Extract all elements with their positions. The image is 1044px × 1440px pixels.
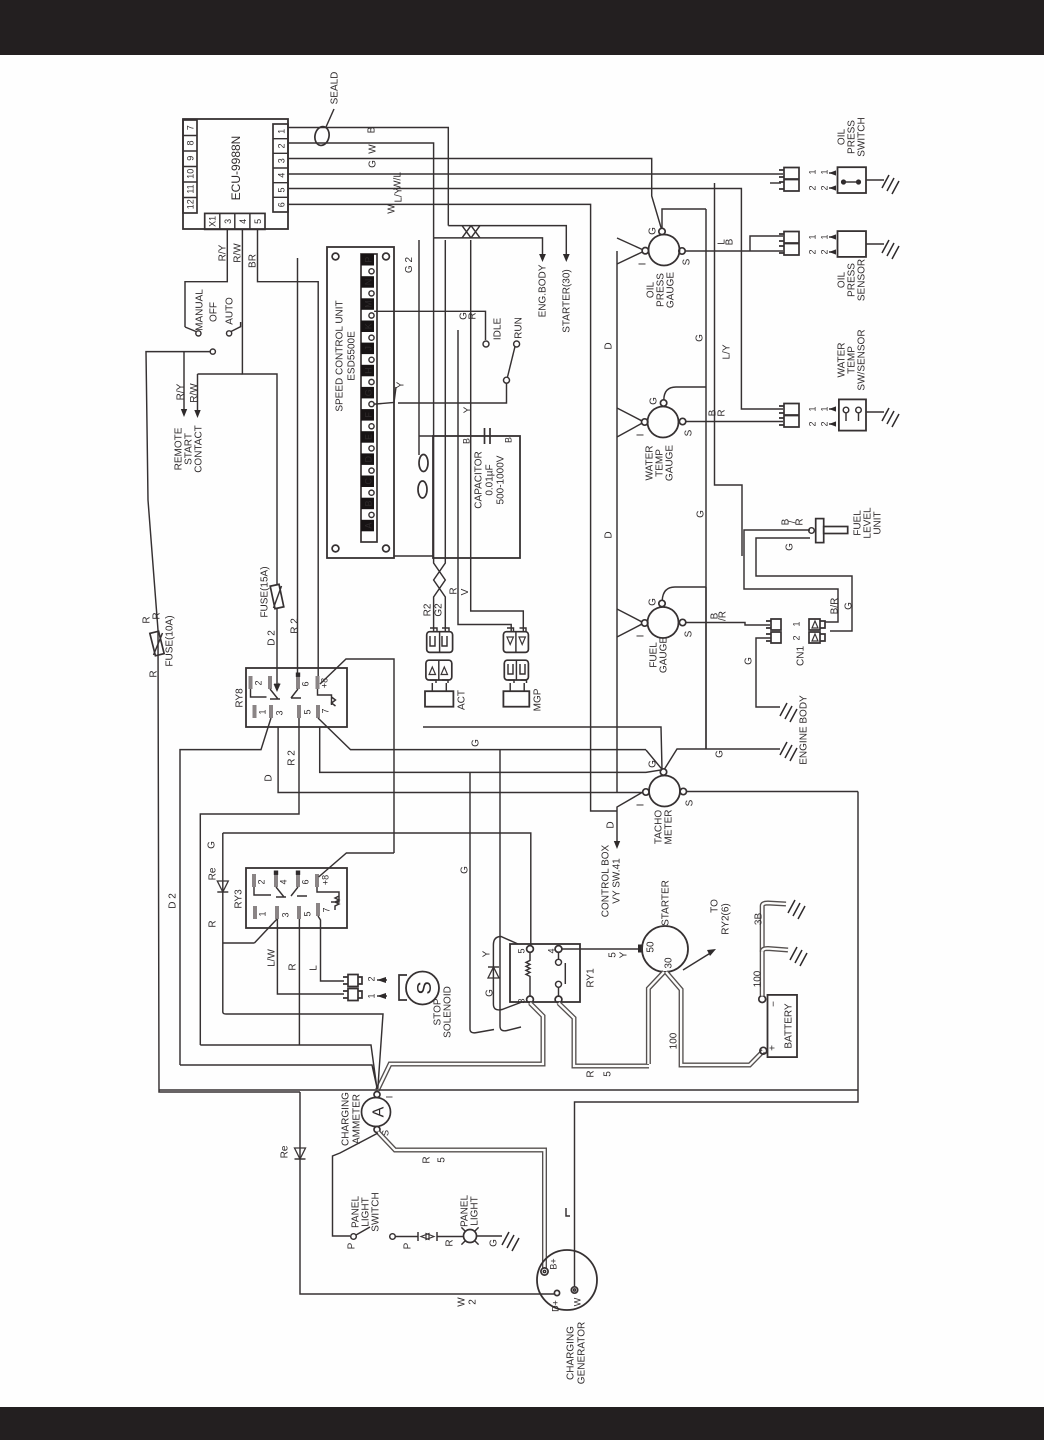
wire from cable to panel switch: [333, 1133, 379, 1236]
svg-text:CHARGING: CHARGING: [341, 1092, 352, 1146]
selector switch OFF contact: [210, 349, 215, 354]
wire RY3 +8 diagonal feed: [319, 853, 394, 877]
wire fuel I fan: [617, 609, 642, 637]
ground engine body lower: [780, 742, 797, 761]
D+ terminal: [554, 1290, 559, 1295]
wire W pin2: [288, 143, 434, 238]
svg-text:3: 3: [275, 710, 285, 715]
ground: [788, 900, 805, 919]
wire fan into ammeter: [180, 1014, 383, 1089]
ECU right connector strip pins 1-6: [273, 124, 288, 212]
svg-text:1: 1: [808, 169, 818, 174]
svg-text:D 2: D 2: [267, 630, 278, 646]
svg-text:G: G: [460, 866, 471, 874]
svg-text:G: G: [648, 598, 659, 606]
ammeter M5 circle: [362, 1098, 391, 1127]
svg-text:STARTER: STARTER: [661, 880, 672, 926]
svg-text:L/Y: L/Y: [394, 187, 405, 202]
svg-text:N: N: [364, 279, 374, 286]
wire WT G loop: [664, 387, 706, 400]
diode Re: [295, 1148, 306, 1159]
svg-text:ESD5500E: ESD5500E: [347, 331, 358, 381]
svg-text:100: 100: [753, 970, 764, 987]
wire from OFF to left bus: [146, 352, 300, 1092]
svg-text:G: G: [648, 227, 659, 235]
svg-text:I: I: [636, 635, 647, 638]
wire tacho S to right border: [687, 791, 859, 793]
svg-text:SW/SENSOR: SW/SENSOR: [857, 329, 868, 390]
svg-text:G: G: [715, 750, 726, 758]
svg-text:5: 5: [303, 709, 313, 714]
svg-text:Y: Y: [396, 381, 407, 388]
wire connector to lamp: [437, 1236, 463, 1238]
svg-text:2: 2: [468, 1299, 479, 1305]
svg-text:4: 4: [279, 879, 289, 884]
ECU left connector strip pins 7-12: [183, 120, 197, 213]
wire fuel S to CN1: [686, 623, 770, 626]
top black bar: [0, 0, 1044, 55]
svg-text:W: W: [457, 1297, 468, 1307]
svg-text:I: I: [638, 263, 649, 266]
svg-text:B: B: [725, 238, 736, 245]
svg-text:GAUGE: GAUGE: [665, 445, 676, 481]
svg-text:1: 1: [277, 129, 287, 134]
remote start wire R/Y arrow: [183, 352, 185, 412]
svg-text:2: 2: [820, 185, 830, 190]
W terminal: [571, 1287, 577, 1293]
svg-text:7: 7: [186, 125, 196, 130]
svg-text:R 2: R 2: [287, 750, 298, 766]
wire RY3 top to RY1: [223, 833, 531, 945]
ACT lower connector: [426, 660, 452, 680]
svg-text:Y: Y: [619, 951, 630, 958]
selector switch AUTO contact: [227, 331, 232, 336]
wire to ground: [866, 411, 884, 413]
svg-text:5: 5: [253, 219, 263, 224]
svg-text:D: D: [604, 342, 615, 349]
svg-text:R2: R2: [423, 603, 434, 616]
water temp connector: [779, 404, 799, 428]
svg-text:100: 100: [669, 1032, 680, 1049]
oil press sensor R1 box: [838, 231, 867, 257]
svg-text:S: S: [682, 258, 693, 265]
panel light switch SW2: [351, 1234, 357, 1240]
water temp gauge M2: [648, 407, 679, 438]
svg-text:5: 5: [303, 911, 313, 916]
RY1 coil: [526, 952, 530, 996]
svg-text:R: R: [149, 670, 160, 677]
svg-text:G: G: [744, 657, 755, 665]
svg-text:B/R: B/R: [830, 598, 841, 615]
svg-text:RUN: RUN: [514, 317, 525, 339]
svg-text:SEALD: SEALD: [330, 72, 341, 105]
B+ terminal: [541, 1268, 548, 1275]
svg-text:AUTO: AUTO: [225, 297, 236, 325]
wire G pin3: [288, 159, 661, 229]
wire L from RY3 pin7: [318, 916, 344, 981]
RY1 pin circles: [527, 946, 534, 953]
arrows: [829, 173, 835, 188]
panel light LP1: [464, 1230, 477, 1243]
svg-text:−: −: [769, 1001, 780, 1007]
wire RY3 pin3 from bottom rail: [254, 919, 277, 943]
arrow to RY2: [683, 952, 712, 970]
ground: [882, 175, 899, 194]
svg-text:CHARGING: CHARGING: [566, 1326, 577, 1380]
wire to ground: [866, 243, 884, 245]
svg-text:0.01µF: 0.01µF: [485, 464, 496, 495]
mounting hole: [383, 253, 390, 260]
svg-text:M: M: [364, 300, 374, 308]
svg-text:I: I: [636, 804, 647, 807]
svg-text:5: 5: [608, 952, 619, 958]
water temp sw/sensor box: [839, 399, 866, 430]
svg-text:S: S: [685, 799, 696, 806]
svg-text:1: 1: [820, 234, 830, 239]
svg-text:SPEED CONTROL UNIT: SPEED CONTROL UNIT: [335, 300, 346, 411]
svg-text:7: 7: [321, 708, 331, 713]
svg-text:GAUGE: GAUGE: [659, 637, 670, 673]
svg-text:1: 1: [367, 993, 377, 998]
svg-text:X1: X1: [208, 216, 218, 227]
charging generator G1 circle: [537, 1250, 597, 1310]
svg-text:S: S: [684, 429, 695, 436]
svg-text:RY2(6): RY2(6): [721, 903, 732, 935]
switch IDLE contact: [483, 341, 489, 347]
svg-text:4: 4: [547, 948, 557, 953]
svg-text:GAUGE: GAUGE: [666, 272, 677, 308]
cable RY1 pin3 to ammeter: [378, 1003, 544, 1090]
svg-text:1: 1: [258, 709, 268, 714]
svg-text:A: A: [371, 1106, 388, 1117]
svg-text:METER: METER: [664, 810, 675, 845]
battery minus cable to grounds: [762, 903, 786, 996]
svg-text:Re: Re: [208, 867, 219, 880]
wire oil I fan: [617, 238, 642, 264]
oil press switch S1 box: [838, 167, 867, 193]
MGP wires R and V: [458, 330, 511, 632]
RY3 pins top: [252, 874, 256, 887]
CN1 right half: [809, 619, 825, 643]
wire pair to ACT with twist: [434, 238, 446, 631]
svg-text:R/Y: R/Y: [218, 244, 229, 261]
svg-text:P: P: [364, 257, 374, 263]
svg-text:TO: TO: [710, 899, 721, 913]
svg-text:S: S: [414, 981, 436, 994]
ECU bottom connector strip X1,3,4,5: [205, 213, 265, 229]
wire lamp to ground: [477, 1235, 503, 1237]
svg-text:2: 2: [792, 635, 802, 640]
svg-text:MGP: MGP: [533, 688, 544, 711]
svg-text:3: 3: [277, 158, 287, 163]
wire switch to connector: [396, 1236, 419, 1238]
svg-text:R/W: R/W: [189, 383, 200, 403]
svg-text:D+: D+: [551, 1300, 561, 1312]
svg-text:C: C: [364, 478, 374, 485]
speed control unit U2 box: [327, 247, 394, 558]
svg-text:SWITCH: SWITCH: [371, 1192, 382, 1231]
RY8 pins bottom: [253, 705, 257, 718]
svg-text:2: 2: [808, 421, 818, 426]
svg-text:G: G: [485, 989, 496, 997]
wire WT I fan: [617, 408, 642, 437]
MGP upper connector: [503, 632, 528, 653]
wire RY8 pin7 to tacho G: [318, 718, 646, 750]
ground: [790, 947, 807, 966]
arrows: [829, 237, 835, 252]
RY1 contact: [556, 959, 562, 965]
fuel gauge M3: [648, 607, 679, 638]
ground engine body upper: [780, 703, 797, 722]
svg-text:Y: Y: [463, 406, 474, 413]
svg-text:1: 1: [808, 234, 818, 239]
wire RY8 pin5 down: [200, 718, 299, 1045]
svg-text:R: R: [586, 1070, 597, 1077]
wire G from unit: [756, 538, 852, 631]
wire branch to RY1 coil loop: [470, 750, 521, 1033]
switch lever and pivot: [508, 347, 516, 378]
svg-text:6: 6: [301, 879, 311, 884]
svg-text:G: G: [368, 160, 379, 168]
ACT box: [425, 691, 453, 707]
wire right border: [575, 792, 859, 1288]
wire D bus vertical: [616, 251, 618, 793]
svg-text:Re: Re: [280, 1145, 291, 1158]
oil press gauge M1: [649, 235, 680, 266]
svg-text:MANUAL: MANUAL: [195, 289, 206, 331]
svg-text:G: G: [844, 602, 855, 610]
svg-text:I: I: [385, 1096, 395, 1099]
bottom black bar: [0, 1407, 1044, 1440]
svg-text:BATTERY: BATTERY: [784, 1003, 795, 1049]
svg-text:1: 1: [808, 406, 818, 411]
svg-text:W/L: W/L: [393, 172, 404, 190]
svg-text:R: R: [208, 920, 219, 927]
svg-text:D: D: [264, 774, 275, 781]
svg-text:2: 2: [254, 680, 264, 685]
svg-text:K: K: [364, 323, 374, 329]
wire BR pin 5: [258, 229, 319, 676]
svg-text:W: W: [368, 144, 379, 154]
svg-text:5: 5: [603, 1071, 614, 1077]
wire to ground: [866, 179, 884, 181]
RY8 pins top: [249, 676, 253, 689]
svg-text:4: 4: [238, 219, 248, 224]
fuel level unit body: [809, 528, 815, 534]
svg-text:500-1000V: 500-1000V: [496, 455, 507, 504]
solenoid bracket: [399, 975, 407, 1000]
svg-text:CAPACITOR: CAPACITOR: [474, 451, 485, 508]
svg-text:ENG.BODY: ENG.BODY: [538, 264, 549, 317]
fuse FUSE(10A): [142, 612, 176, 677]
wire G bus vertical: [705, 209, 707, 749]
inline connector: [418, 1232, 437, 1241]
wire R/W pin 4: [242, 229, 277, 584]
svg-text:R: R: [288, 963, 299, 970]
wire to ENG.BODY arrow: [434, 238, 543, 256]
svg-text:G: G: [696, 510, 707, 518]
wire R from RY3 pin5: [298, 919, 300, 1045]
RY1 diode loop: [493, 937, 522, 1010]
svg-text:W: W: [573, 1297, 583, 1306]
MGP box: [503, 691, 529, 707]
wire RY1 pin4 to starter 50: [562, 948, 642, 950]
wire from mid down to tacho G fan: [320, 727, 662, 772]
svg-text:1: 1: [820, 406, 830, 411]
svg-text:1: 1: [258, 911, 268, 916]
svg-text:B: B: [364, 500, 374, 506]
svg-text:8: 8: [186, 140, 196, 145]
fuse FUSE(15A): [260, 566, 301, 692]
starter cable right: [666, 972, 763, 1065]
svg-text:ECU-9988N: ECU-9988N: [229, 136, 243, 201]
svg-text:G: G: [364, 389, 374, 396]
svg-text:B: B: [367, 126, 378, 133]
svg-text:R: R: [445, 1239, 456, 1246]
svg-text:G 2: G 2: [404, 257, 415, 274]
svg-text:2: 2: [367, 976, 377, 981]
svg-text:10: 10: [186, 169, 196, 179]
svg-text:Y: Y: [482, 950, 493, 957]
svg-text:RY8: RY8: [235, 688, 246, 708]
svg-text:I: I: [636, 434, 647, 437]
svg-text:CONTACT: CONTACT: [194, 425, 205, 473]
capacitor symbol: [485, 428, 491, 444]
diode Re at RY3: [223, 833, 255, 1014]
svg-text:12: 12: [186, 199, 196, 209]
solenoid connector: [343, 975, 362, 1001]
wire oil G loop: [662, 209, 706, 228]
starter MT1 circle: [642, 926, 688, 972]
wire L/Y pin5 to water temp switch: [288, 189, 783, 410]
wire L/W from RY3 pin3: [277, 919, 344, 994]
svg-text:D: D: [604, 531, 615, 538]
wire R/Y pin 3: [185, 229, 227, 327]
svg-text:S: S: [684, 630, 695, 637]
wire oil S to sensor: [685, 250, 783, 252]
switch RUN contact: [514, 341, 520, 347]
svg-text:G: G: [471, 739, 482, 747]
svg-text:4: 4: [277, 173, 287, 178]
svg-text:SENSOR: SENSOR: [857, 259, 868, 301]
RY3 internal contacts: [254, 887, 339, 910]
svg-text:SWITCH: SWITCH: [857, 117, 868, 156]
svg-text:1: 1: [792, 621, 802, 626]
decorative vertical wire: [715, 183, 743, 556]
svg-text:2: 2: [808, 249, 818, 254]
svg-text:R: R: [717, 409, 728, 416]
ground: [502, 1232, 519, 1251]
svg-text:3B: 3B: [754, 913, 765, 926]
wire WT S to connector: [686, 421, 783, 423]
svg-text:R 2: R 2: [290, 618, 301, 634]
relay RY3 box: [246, 868, 347, 928]
svg-text:9: 9: [186, 156, 196, 161]
svg-text:+: +: [768, 1045, 779, 1051]
cable RY1 pin right to bottom bus: [559, 1003, 650, 1066]
wire B pin1: [288, 128, 448, 226]
oil press switch connector: [779, 168, 799, 192]
CN1 left half: [766, 619, 781, 643]
wire left bus down to generator D+: [300, 1092, 554, 1294]
svg-text:P: P: [403, 1242, 414, 1249]
svg-text:D: D: [364, 455, 374, 462]
svg-text:R: R: [422, 1156, 433, 1163]
svg-text:R: R: [449, 587, 460, 594]
svg-text:F: F: [364, 412, 374, 418]
svg-text:L/W: L/W: [267, 949, 278, 967]
svg-text:STARTER(30): STARTER(30): [562, 269, 573, 333]
svg-text:R/Y: R/Y: [176, 383, 187, 400]
svg-text:5: 5: [277, 187, 287, 192]
svg-text:W: W: [387, 204, 398, 214]
MGP lower connector: [504, 660, 528, 680]
svg-text:D 2: D 2: [168, 893, 179, 909]
wire CN1 to engine body ground: [756, 638, 780, 707]
svg-text:7: 7: [322, 907, 332, 912]
svg-text:IDLE: IDLE: [493, 318, 504, 341]
capacitor C1 box: [433, 436, 520, 558]
seal symbol: [313, 125, 331, 146]
wire bottom border: [159, 1089, 858, 1091]
svg-text:3: 3: [223, 219, 233, 224]
stop solenoid SOL1: [406, 972, 439, 1005]
svg-text:G2: G2: [434, 603, 445, 617]
relay RY1 box: [510, 944, 580, 1002]
wire B/R from unit: [744, 530, 838, 622]
svg-text:30: 30: [664, 957, 675, 969]
ground: [882, 408, 899, 427]
wire to STARTER(30) arrow: [448, 226, 566, 256]
arrows: [377, 980, 387, 996]
svg-text:BR: BR: [248, 254, 259, 268]
svg-text:OFF: OFF: [209, 302, 220, 322]
battery + terminal: [760, 1047, 767, 1054]
svg-text:D: D: [606, 821, 617, 828]
svg-text:H: H: [364, 367, 374, 374]
svg-text:GENERATOR: GENERATOR: [577, 1322, 588, 1384]
svg-text:LIGHT: LIGHT: [470, 1196, 481, 1225]
ground: [882, 240, 899, 259]
wire pivot to G terminal hook: [374, 383, 506, 404]
selector switch MANUAL contact: [196, 331, 201, 336]
svg-text:CN1: CN1: [796, 646, 807, 666]
svg-text:G: G: [489, 1239, 500, 1247]
svg-text:R: R: [142, 616, 153, 623]
svg-text:6: 6: [277, 202, 287, 207]
svg-text:L: L: [309, 965, 320, 971]
svg-text:/R: /R: [718, 611, 729, 621]
svg-text:RY3: RY3: [234, 889, 245, 909]
mounting hole: [332, 545, 339, 552]
svg-text:G: G: [649, 397, 660, 405]
svg-text:R: R: [468, 312, 479, 319]
svg-text:+8: +8: [321, 875, 331, 885]
twist mark on branch wires: [462, 226, 480, 238]
svg-text:2: 2: [820, 249, 830, 254]
svg-text:E: E: [364, 434, 374, 440]
wire W/L pin4 to oil press switch: [288, 173, 783, 175]
svg-text:2: 2: [257, 879, 267, 884]
svg-text:FUSE(10A): FUSE(10A): [165, 615, 176, 666]
svg-text:3: 3: [281, 912, 291, 917]
wire tacho I: [617, 792, 643, 843]
svg-text:P: P: [347, 1242, 358, 1249]
ECU U1 box: [183, 119, 288, 229]
svg-text:A: A: [364, 523, 374, 529]
svg-text:RY1: RY1: [586, 968, 597, 988]
RY8 internal contacts: [251, 689, 336, 706]
